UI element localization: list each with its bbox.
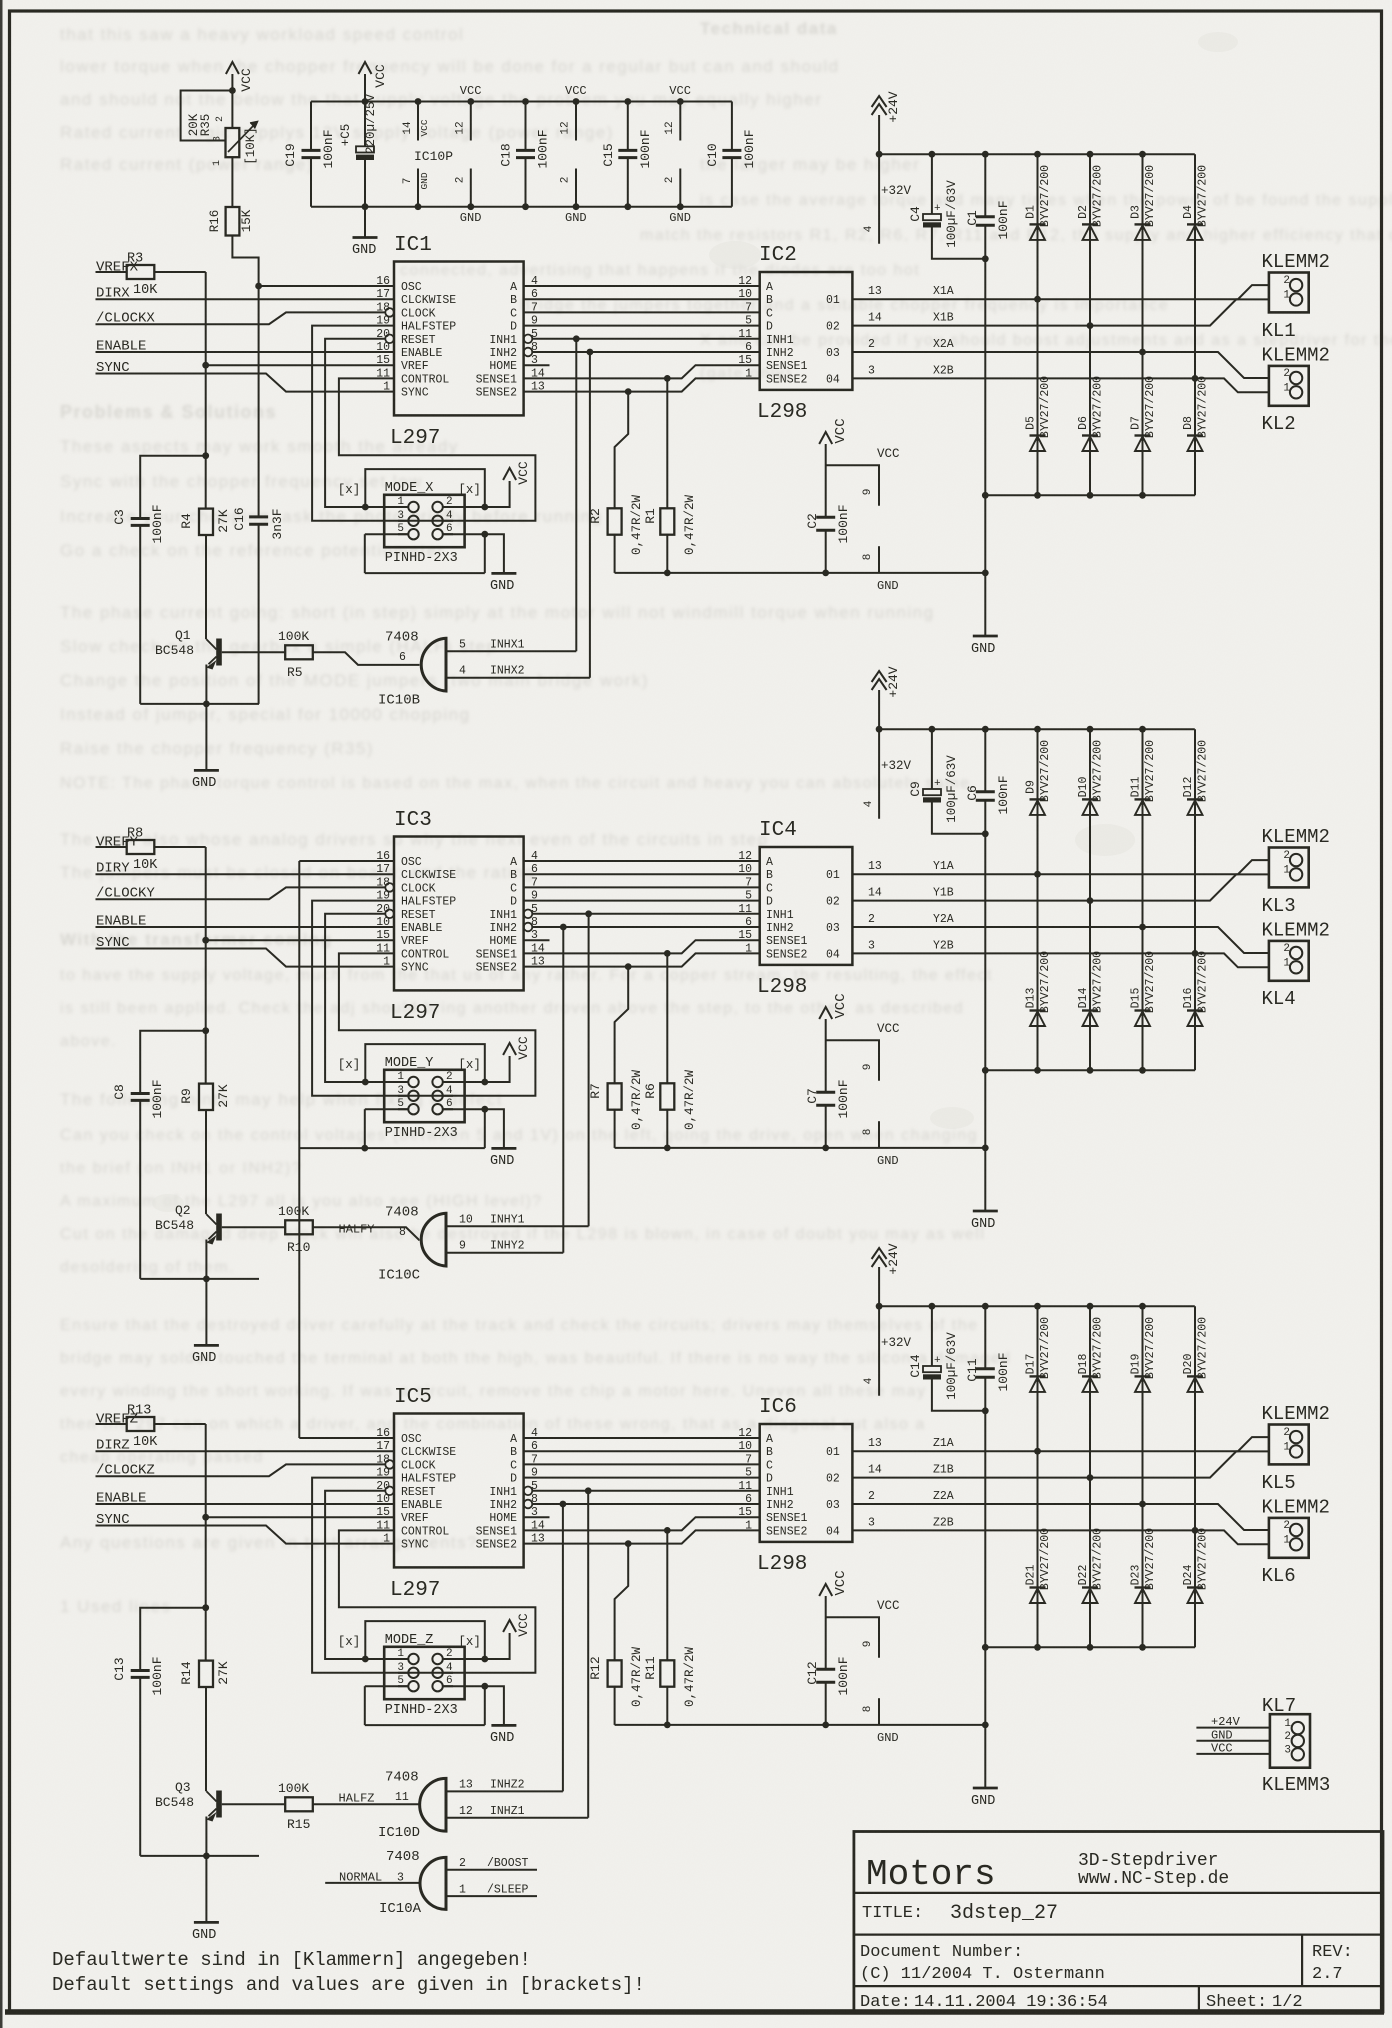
wire phase A [524,860,760,862]
svg-text:D15: D15 [1130,988,1143,1009]
resistor R3 10K [127,252,159,299]
svg-text:VCC: VCC [877,1022,900,1036]
svg-text:C10: C10 [705,143,720,166]
resistor R4 27K [179,456,231,535]
wire R to Q collector [205,535,207,639]
wire SENSE1 net [524,365,760,382]
svg-text:2: 2 [1283,275,1290,287]
svg-text:D8: D8 [1182,416,1195,430]
svg-text:03: 03 [826,347,840,360]
connector KL1 KLEMM2 [1262,251,1330,342]
svg-text:[10K]: [10K] [244,127,258,165]
diode D11 BYV27/200 [1130,729,1158,930]
wire emitter to ground junction [140,1817,259,1923]
svg-text:2: 2 [1283,943,1290,955]
svg-text:C: C [766,882,773,895]
wire GND column [982,492,989,636]
svg-text:5: 5 [397,1098,404,1110]
svg-text:CLOCK: CLOCK [401,307,436,320]
svg-text:8: 8 [862,1706,874,1713]
svg-text:SENSE2: SENSE2 [476,1539,518,1552]
diode D7 BYV27/200 [1130,352,1158,499]
svg-text:B: B [510,294,517,307]
svg-text:13: 13 [459,1778,473,1791]
svg-text:100nF: 100nF [638,129,653,168]
svg-text:+24V: +24V [886,1243,901,1274]
svg-text:Rated current (power range): Rated current (power range) [60,155,314,174]
svg-text:KLEMM2: KLEMM2 [1262,826,1330,848]
svg-text:100nF: 100nF [996,1352,1011,1391]
svg-text:3n3F: 3n3F [270,508,285,539]
svg-text:Y2B: Y2B [933,940,954,953]
svg-text:9: 9 [862,489,874,496]
svg-text:17: 17 [376,1440,390,1453]
svg-text:10: 10 [459,1213,473,1226]
wire GND to KL7 [1196,1729,1270,1743]
svg-text:ENABLE: ENABLE [401,347,443,360]
svg-text:to have the supply voltage, mu: to have the supply voltage, much from th… [60,967,993,984]
label TITLE [862,1902,1058,1925]
svg-text:The jumpers must be closed on: The jumpers must be closed on board; and… [60,863,535,882]
node ENABLE [96,339,395,355]
svg-text:+: + [934,1355,941,1367]
wire OSC stub [299,860,394,862]
svg-text:R9: R9 [179,1088,194,1104]
pin HOME stub [524,364,550,366]
svg-text:D20: D20 [1182,1354,1195,1375]
svg-text:3: 3 [1284,1745,1291,1757]
svg-text:R1: R1 [643,508,658,524]
label Document Number [860,1943,1023,1962]
svg-text:100µF/63V: 100µF/63V [945,755,959,823]
svg-text:C9: C9 [908,781,923,797]
wire Z2A [852,1490,1269,1530]
svg-text:MODE_Z: MODE_Z [385,1633,434,1648]
resistor R11 0,47R/2W [643,1530,697,1725]
connector KL2 KLEMM2 [1262,345,1330,436]
svg-text:BYV27/200: BYV27/200 [1039,165,1052,227]
wire mode row1 right to VCC [362,1633,510,1662]
diode D20 BYV27/200 [1182,1306,1210,1534]
wire INHY1 [446,914,589,1227]
wire +24V rail [876,151,1195,158]
svg-text:R2: R2 [588,508,603,524]
wire Z1A [852,1437,1269,1451]
svg-text:14: 14 [868,1464,882,1477]
VCC power symbol (L298 supply) [819,993,899,1092]
wire RESET to mode row1 [325,339,408,507]
svg-text:GND: GND [877,1154,899,1168]
svg-text:D: D [510,321,517,334]
capacitor C6 100nF [965,729,1011,1070]
svg-text:100nF: 100nF [836,1656,851,1695]
svg-text:100K: 100K [278,1781,309,1796]
svg-text:Defaultwerte sind in [Klammern: Defaultwerte sind in [Klammern] angegebe… [52,1949,531,1971]
transistor Q1 BC548 [155,628,222,670]
svg-text:OSC: OSC [401,281,422,294]
svg-text:D: D [510,896,517,909]
svg-text:R5: R5 [287,665,303,680]
svg-text:RESET: RESET [401,334,436,347]
VCC power symbol (top of C5 rail) [359,62,389,102]
svg-text:BYV27/200: BYV27/200 [1144,1528,1157,1590]
svg-text:12: 12 [459,1805,473,1818]
svg-text:CLCKWISE: CLCKWISE [401,869,456,882]
svg-text:BYV27/200: BYV27/200 [1092,1317,1105,1379]
wire INH1 net [532,910,759,917]
svg-text:6: 6 [446,523,453,535]
svg-text:Z2A: Z2A [933,1490,954,1503]
svg-text:1: 1 [1283,1535,1290,1547]
IC IC4 L298 H-bridge driver [738,819,852,999]
svg-text:INH2: INH2 [489,1499,517,1512]
wire INH2 net [532,1501,759,1508]
svg-text:C: C [766,307,773,320]
svg-text:3: 3 [868,940,875,953]
svg-text:GND: GND [192,1351,216,1366]
VCC power symbol (mode) [503,1036,531,1060]
svg-text:/BOOST: /BOOST [487,1857,529,1870]
svg-text:IC2: IC2 [759,244,797,267]
svg-text:KL1: KL1 [1262,320,1296,342]
svg-text:9: 9 [459,1240,466,1253]
wire VREFY to VREF column [154,846,205,848]
svg-text:INH1: INH1 [489,1486,517,1499]
wire VREF column [202,1424,394,1608]
svg-text:VCC: VCC [1211,1742,1233,1756]
svg-text:BC548: BC548 [155,1795,194,1810]
svg-text:0,47R/2W: 0,47R/2W [630,1069,644,1130]
svg-text:02: 02 [826,321,840,334]
node /CLOCKX [96,311,386,327]
svg-text:X2A: X2A [933,338,954,351]
svg-text:KLEMM3: KLEMM3 [1262,1774,1330,1796]
diode D17 BYV27/200 [1025,1306,1053,1454]
node SYNC [96,935,395,967]
svg-text:7: 7 [402,178,414,185]
resistor R5 100K [222,629,313,680]
wire default bracket bottom [365,1683,488,1725]
svg-text:D9: D9 [1025,780,1038,794]
svg-text:PINHD-2X3: PINHD-2X3 [385,1703,458,1718]
svg-text:02: 02 [826,1473,840,1486]
diode D23 BYV27/200 [1130,1504,1158,1651]
wire default bracket top [365,469,485,507]
svg-text:1: 1 [459,1884,466,1897]
svg-text:0,47R/2W: 0,47R/2W [630,494,644,555]
svg-text:11: 11 [395,1791,409,1804]
svg-text:Motors: Motors [866,1854,996,1895]
svg-text:BYV27/200: BYV27/200 [1197,740,1210,802]
svg-text:1: 1 [397,1071,404,1083]
node /CLOCKY [96,886,386,902]
svg-text:100nF: 100nF [321,129,336,168]
svg-text:12: 12 [560,121,572,134]
ground (mode header) [490,1725,516,1746]
svg-text:IC3: IC3 [394,809,432,832]
svg-text:2: 2 [454,177,466,184]
svg-text:15: 15 [376,929,390,942]
svg-text:+24V: +24V [886,666,901,697]
svg-text:10K: 10K [133,1435,158,1450]
svg-text:B: B [510,1446,517,1459]
svg-text:SENSE1: SENSE1 [766,935,808,948]
ground (emitter) [192,1345,219,1366]
diode D3 BYV27/200 [1130,154,1158,355]
svg-text:PINHD-2X3: PINHD-2X3 [385,551,458,566]
wire pin 9 stub [826,1617,879,1658]
svg-text:is still been applied. Check t: is still been applied. Check the adj sho… [60,1000,964,1017]
svg-text:INHZ1: INHZ1 [490,1805,525,1818]
svg-text:+24V: +24V [1211,1715,1241,1729]
wire emitter to ground junction [140,665,259,771]
svg-text:D3: D3 [1130,205,1143,219]
svg-text:D: D [510,1473,517,1486]
svg-text:The phase current going: short: The phase current going: short (in step)… [60,603,935,622]
svg-text:[x]: [x] [458,483,481,497]
svg-text:100nF: 100nF [836,504,851,543]
svg-text:D7: D7 [1130,416,1143,430]
scanner edge artifact [0,0,3,2028]
wire phase B [524,298,760,300]
connector MODE_X PINHD-2X3 jumper header [384,481,464,566]
wire sense ground bus [615,570,989,577]
svg-text:L297: L297 [390,427,440,450]
svg-text:SENSE2: SENSE2 [766,373,808,386]
svg-text:ENABLE: ENABLE [401,922,443,935]
svg-text:1: 1 [383,956,390,969]
svg-text:4: 4 [446,1662,453,1674]
wire phase A [524,1437,760,1439]
wire Y2A [852,913,1269,953]
svg-text:12: 12 [454,121,466,134]
svg-text:100nF: 100nF [836,1079,851,1118]
diode D12 BYV27/200 [1182,729,1210,957]
svg-text:5: 5 [397,1675,404,1687]
diode D6 BYV27/200 [1077,326,1105,499]
svg-text:R3: R3 [127,252,143,267]
svg-text:VCC: VCC [877,1599,900,1613]
svg-text:that this saw a heavy workload: that this saw a heavy workload speed con… [60,25,464,44]
AND gate IC10C 7408 [378,1204,446,1283]
svg-text:www.NC-Step.de: www.NC-Step.de [1078,1869,1229,1889]
wire base to gate input [313,1223,420,1240]
wire default bracket bottom [299,1106,488,1152]
resistor R14 27K [179,1608,231,1687]
svg-text:Sync with the chopper frequenc: Sync with the chopper frequency set low [60,472,423,491]
svg-text:Technical data: Technical data [700,19,838,38]
label [x] right [458,1058,481,1072]
svg-text:SENSE1: SENSE1 [766,1512,808,1525]
svg-text:IC10A: IC10A [379,1901,422,1917]
svg-text:6: 6 [446,1675,453,1687]
svg-text:100nF: 100nF [996,775,1011,814]
svg-text:Q2: Q2 [175,1203,191,1218]
svg-text:0,47R/2W: 0,47R/2W [683,1646,697,1707]
svg-text:13: 13 [868,860,882,873]
svg-text:6: 6 [446,1098,453,1110]
svg-text:1: 1 [1283,865,1290,877]
svg-text:RESET: RESET [401,1486,436,1499]
capacitor C7 100nF [805,1079,851,1147]
wire +24V to KL7 [1196,1715,1270,1729]
diode D9 BYV27/200 [1025,729,1053,877]
svg-text:VCC: VCC [516,461,531,485]
svg-text:1: 1 [383,381,390,394]
wire base to gate input [313,1792,420,1806]
capacitor C9 100uF/63V electrolytic [908,729,985,834]
pin HOME stub [524,939,550,941]
wire phase A [524,285,760,287]
svg-text:X2B: X2B [933,365,954,378]
capacitor C8 100nF [112,1027,209,1279]
connector KL6 KLEMM2 [1262,1497,1330,1588]
svg-text:IC10D: IC10D [378,1825,420,1841]
svg-text:+C5: +C5 [339,124,353,147]
ground (power) [971,636,998,657]
IC IC6 L298 H-bridge driver [738,1396,852,1576]
diode D5 BYV27/200 [1025,299,1053,498]
label Sheet [1206,1993,1303,2012]
svg-text:7408: 7408 [385,1769,419,1785]
svg-text:15: 15 [376,1506,390,1519]
svg-text:4: 4 [863,1377,875,1384]
wire pot to R16 [231,157,233,207]
svg-text:04: 04 [826,1525,840,1538]
IC power pin pair 12/2 #3 [664,84,691,225]
svg-text:IC5: IC5 [394,1386,432,1409]
wire Y1B [852,874,1269,900]
node DIRY [96,861,395,877]
svg-text:SENSE1: SENSE1 [476,373,518,386]
label [x] right [458,1635,481,1649]
svg-text:Rated current logic supplys 12: Rated current logic supplys 12V supply v… [60,123,614,142]
resistor R1 0,47R/2W [643,378,697,573]
svg-text:D18: D18 [1077,1354,1090,1375]
svg-text:A: A [510,856,517,869]
wire Z1B [852,1451,1269,1477]
svg-text:VCC: VCC [565,84,587,98]
svg-text:CONTROL: CONTROL [401,1525,449,1538]
resistor R15 100K [222,1781,313,1832]
svg-text:VCC: VCC [669,84,691,98]
wire SENSE2 net [524,953,760,970]
svg-text:C19: C19 [283,143,298,166]
svg-text:8: 8 [399,1226,406,1239]
resistor R2 0,47R/2W [588,392,644,573]
svg-text:C14: C14 [908,1354,923,1378]
connector KL4 KLEMM2 [1262,920,1330,1011]
potentiometer R35 20K [10K] [187,113,258,166]
svg-text:D10: D10 [1077,777,1090,798]
svg-text:GND: GND [971,642,995,657]
svg-text:KL2: KL2 [1262,413,1296,435]
svg-text:INH1: INH1 [766,1486,794,1499]
svg-text:GND: GND [419,172,430,189]
svg-text:INH1: INH1 [766,909,794,922]
svg-text:3D-Stepdriver: 3D-Stepdriver [1078,1851,1218,1871]
connector KL5 KLEMM2 [1262,1403,1330,1494]
wire SENSE1 net [524,940,760,957]
svg-text:14.11.2004 19:36:54: 14.11.2004 19:36:54 [914,1993,1108,2012]
svg-text:PINHD-2X3: PINHD-2X3 [385,1126,458,1141]
svg-text:01: 01 [826,294,840,307]
svg-text:INH2: INH2 [766,922,794,935]
wire HALFSTEP to mode row2 [312,326,535,521]
wire phase D [524,325,760,327]
svg-text:27K: 27K [216,1661,231,1685]
wire diode ground bus [985,1646,1195,1648]
svg-text:VCC: VCC [373,64,388,88]
svg-text:HOME: HOME [489,360,517,373]
svg-text:CONTROL: CONTROL [401,373,449,386]
connector KL3 KLEMM2 [1262,826,1330,917]
svg-text:IC4: IC4 [759,819,797,842]
IC IC5 L297 stepper controller [376,1386,545,1602]
wire GND column [982,1644,989,1788]
svg-text:GND: GND [490,1731,514,1746]
svg-text:VREF: VREF [401,935,429,948]
svg-text:14: 14 [868,312,882,325]
svg-text:0,47R/2W: 0,47R/2W [683,1069,697,1130]
wire RESET to mode row1 [325,1491,408,1659]
svg-text:C15: C15 [601,143,616,166]
svg-text:13: 13 [868,1437,882,1450]
svg-text:1: 1 [397,1648,404,1660]
svg-text:CLCKWISE: CLCKWISE [401,1446,456,1459]
svg-text:17: 17 [376,863,390,876]
wire pin 8 stub [862,546,899,593]
svg-text:7408: 7408 [385,629,419,645]
svg-text:C8: C8 [112,1084,127,1100]
wire /SLEEP output [446,1884,537,1897]
capacitor C12 100nF [805,1656,851,1724]
svg-text:A: A [766,856,773,869]
svg-text:4: 4 [459,665,466,678]
svg-text:SENSE1: SENSE1 [766,360,808,373]
svg-text:3: 3 [868,1517,875,1530]
svg-text:ENABLE: ENABLE [401,1499,443,1512]
svg-text:BYV27/200: BYV27/200 [1197,376,1210,438]
diode D14 BYV27/200 [1077,901,1105,1074]
svg-text:VCC: VCC [239,68,254,92]
svg-text:OSC: OSC [401,1433,422,1446]
svg-text:D22: D22 [1077,1565,1090,1586]
+24V power symbol [872,91,901,154]
svg-text:match the resistors R1, R2, R6: match the resistors R1, R2, R6, R7, R11 … [640,227,1392,244]
svg-text:10K: 10K [133,283,158,298]
svg-text:VCC: VCC [419,119,430,136]
wire INHX1 [446,339,576,652]
svg-text:BYV27/200: BYV27/200 [1144,1317,1157,1379]
svg-text:SENSE2: SENSE2 [476,387,518,400]
label Motors [866,1854,996,1895]
svg-text:MODE_Y: MODE_Y [385,1056,434,1071]
svg-text:2: 2 [1284,1731,1291,1743]
svg-text:GND: GND [490,579,514,594]
svg-text:Problems & Solutions: Problems & Solutions [60,402,277,422]
svg-text:SENSE1: SENSE1 [476,948,518,961]
svg-text:17: 17 [376,288,390,301]
wire SENSE1 net [524,1517,760,1534]
svg-text:2: 2 [446,1648,453,1660]
svg-text:A: A [766,1433,773,1446]
svg-text:GND: GND [352,243,376,258]
wire INHZ1 [446,1491,588,1818]
label REV [1312,1943,1353,1984]
svg-text:D6: D6 [1077,416,1090,430]
svg-text:3: 3 [397,1872,404,1885]
